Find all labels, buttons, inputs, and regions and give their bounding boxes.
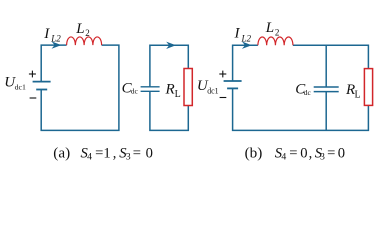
wire: circuit b, capacitor branch upper — [325, 45, 327, 87]
svg-text:=: = — [327, 145, 335, 161]
svg-text:1: 1 — [103, 145, 110, 161]
current arrow, circuit a load loop — [167, 43, 174, 49]
wire: circuit b, left upper + top-left segment — [233, 45, 258, 81]
inductor L2, circuit b — [258, 37, 293, 45]
resistor R_L, circuit a — [184, 69, 192, 106]
caption b — [245, 144, 345, 162]
wire: circuit a, source loop, top-right + right + bottom + left lower — [41, 45, 119, 130]
svg-text:dc1: dc1 — [15, 83, 26, 92]
svg-text:0: 0 — [338, 145, 345, 161]
svg-text:=: = — [133, 145, 141, 161]
svg-text:3: 3 — [126, 152, 131, 163]
svg-text:4: 4 — [281, 152, 286, 163]
svg-text:4: 4 — [87, 152, 92, 163]
current arrow IL2, circuit a — [53, 42, 60, 48]
wire: circuit b, top-right + right upper — [293, 45, 369, 68]
svg-text:dc1: dc1 — [207, 86, 218, 95]
svg-text:2: 2 — [275, 28, 280, 38]
label minus, circuit b — [220, 97, 227, 99]
wire: circuit a, load loop, right lower + bottom + left lower — [150, 91, 188, 130]
label minus, circuit a — [30, 97, 37, 99]
inductor L2, circuit a — [67, 37, 102, 45]
svg-text:3: 3 — [320, 152, 325, 163]
capacitor C_dc, circuit b — [314, 87, 339, 92]
wire: circuit a, source loop, left upper + top-left segment — [41, 45, 66, 82]
svg-text:R: R — [165, 82, 175, 98]
svg-text:=: = — [289, 145, 297, 161]
svg-text:=: = — [95, 145, 103, 161]
svg-text:L: L — [355, 90, 361, 101]
svg-text:0: 0 — [146, 145, 153, 161]
capacitor C_dc, circuit a — [141, 87, 160, 92]
resistor R_L, circuit b — [364, 69, 372, 106]
battery U_dc1 plates, circuit b — [224, 81, 242, 88]
svg-text:(b): (b) — [245, 144, 263, 161]
label plus, circuit b — [219, 71, 226, 78]
svg-text:2: 2 — [85, 28, 90, 38]
svg-text:,: , — [113, 145, 117, 161]
current arrow IL2, circuit b — [243, 42, 250, 48]
svg-text:,: , — [309, 145, 313, 161]
svg-text:I: I — [43, 26, 50, 42]
svg-text:L2: L2 — [50, 34, 61, 44]
svg-text:dc: dc — [304, 88, 312, 97]
svg-text:(a): (a) — [53, 144, 70, 161]
label plus, circuit a — [29, 71, 36, 78]
svg-text:0: 0 — [300, 145, 307, 161]
svg-text:dc: dc — [131, 87, 139, 96]
svg-text:L2: L2 — [241, 34, 252, 44]
svg-text:I: I — [234, 26, 241, 42]
svg-text:L: L — [175, 89, 181, 100]
caption a — [53, 144, 153, 162]
svg-text:L: L — [75, 21, 84, 37]
svg-text:L: L — [265, 20, 274, 36]
battery U_dc1 plates, circuit a — [33, 82, 51, 90]
wire: circuit a, load loop, left upper + top + right upper — [150, 45, 188, 87]
wire: circuit b, capacitor branch lower — [325, 92, 327, 131]
wire: circuit b, right lower + bottom + left lower — [233, 88, 369, 130]
